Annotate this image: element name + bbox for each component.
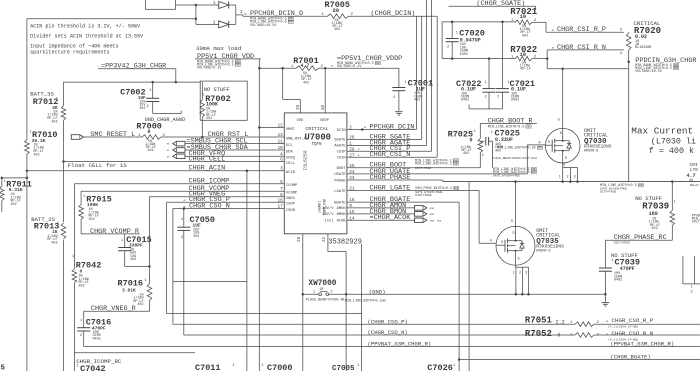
svg-text:35382929: 35382929 (328, 239, 362, 247)
node junction dot upper (195, 4, 198, 7)
resistor R7042 (72, 269, 77, 283)
wire BGATE rail (459, 359, 700, 361)
wire BGATE vertical long (458, 202, 460, 371)
svg-text:GATE_W7030=TRUE: GATE_W7030=TRUE (493, 174, 520, 177)
svg-text:MIN_LINE_WIDTH=0.25 mm: MIN_LINE_WIDTH=0.25 mm (497, 147, 542, 151)
svg-text:DCIN: DCIN (337, 129, 346, 133)
svg-text:CHGR_CSO_N: CHGR_CSO_N (189, 203, 230, 211)
resistor R7051 (575, 322, 594, 327)
wire VDD vertical long drop (258, 59, 260, 371)
transistor Q7030 (545, 128, 580, 163)
wire R7052 out (594, 334, 700, 336)
Q7030 source stubs (562, 163, 564, 168)
wire CELL to IC (64, 161, 285, 163)
svg-text:3: 3 (691, 291, 693, 295)
wire C7020 rail bottom (442, 58, 515, 60)
svg-text:10: 10 (278, 146, 284, 151)
svg-text:VOLTA: VOLTA (692, 221, 700, 225)
svg-text:VCOMP: VCOMP (286, 192, 298, 196)
capacitor C7002 top lead (152, 82, 154, 98)
svg-text:3: 3 (280, 167, 283, 172)
svg-text:DELAY: DELAY (690, 184, 699, 187)
svg-text:5: 5 (1, 365, 6, 371)
svg-text:AGATE: AGATE (334, 145, 346, 149)
svg-text:VDDP: VDDP (320, 119, 330, 123)
port CHGR_BMON (415, 212, 427, 217)
svg-text:2: 2 (567, 176, 569, 180)
svg-text:R7051: R7051 (525, 316, 553, 326)
svg-text:C7000: C7000 (267, 363, 293, 371)
wire C7001 to ground (398, 91, 400, 111)
net CHGR_UGATE (347, 173, 527, 175)
svg-text:6: 6 (280, 158, 283, 163)
svg-text:R7016: R7016 (118, 279, 144, 289)
box CHGR_ICOMP_RC (74, 352, 195, 354)
svg-text:CHGR_CSI_N: CHGR_CSI_N (370, 151, 411, 159)
net CHGR_CSI_N (347, 156, 437, 158)
wire R7016 to VNEG_R node (149, 301, 151, 312)
capacitor C7020 (446, 38, 459, 40)
wire to diode D2 anode (196, 23, 219, 25)
svg-text:CSIP: CSIP (337, 151, 347, 155)
wire R7000 to IC SMB_RST_N (161, 136, 284, 138)
wire C7022 bottom lead (488, 92, 490, 109)
net CHGR_LGATE (347, 190, 479, 192)
svg-text:0402: 0402 (511, 99, 519, 103)
net CHGR_BMON (347, 213, 415, 215)
svg-text:2: 2 (485, 96, 487, 100)
svg-text:S: S (565, 157, 567, 161)
svg-text:RP-LF: RP-LF (521, 68, 531, 72)
capacitor C7039 top lead (604, 240, 606, 268)
svg-text:402: 402 (148, 149, 154, 153)
svg-text:SGATE: SGATE (334, 139, 346, 143)
wire VDD pin 19 (283, 98, 301, 100)
svg-text:ICOMP: ICOMP (286, 184, 298, 188)
net CHGR_PHASE (347, 179, 443, 181)
resistor R7011 (1, 178, 3, 186)
svg-text:C7026: C7026 (427, 363, 453, 371)
svg-text:VMST: VMST (286, 128, 296, 132)
wire CSO_P elbow left (166, 202, 168, 313)
svg-text:S: S (518, 258, 520, 262)
svg-text:Divider sets ACIN threshold at: Divider sets ACIN threshold at 13.55V (30, 33, 144, 39)
wire CSI_P vertical to top (431, 0, 433, 151)
wire to diode D1 anode (196, 4, 219, 6)
wire VDDP pin 20 (324, 68, 326, 113)
wire vertical DCIN drop to IC (416, 16, 418, 129)
svg-text:402: 402 (139, 107, 145, 111)
wire rail y313 (167, 312, 362, 314)
resistor R7025 (478, 139, 483, 153)
svg-text:0: 0 (470, 137, 473, 143)
svg-text:TQFN: TQFN (312, 143, 323, 147)
svg-text:1: 1 (72, 255, 74, 259)
wire PPDCIN to Q7030 drain (547, 68, 629, 70)
svg-text:Max Current: Max Current (631, 125, 693, 136)
svg-text:402: 402 (51, 120, 57, 124)
capacitor C7015 top lead (124, 234, 126, 248)
svg-text:3: 3 (574, 176, 576, 180)
svg-text:=PP3V42_G3H_CHGR: =PP3V42_G3H_CHGR (101, 62, 166, 70)
svg-text:VDD: VDD (297, 119, 305, 123)
svg-text:(L7030 li: (L7030 li (651, 136, 696, 146)
svg-text:1: 1 (689, 179, 691, 183)
capacitor C7016 top lead (83, 311, 85, 327)
svg-text:CHGR_VNEG_R: CHGR_VNEG_R (91, 305, 136, 313)
wire stub horizontal y281 (173, 281, 247, 283)
svg-text:BOOT: BOOT (337, 167, 347, 171)
svg-text:1: 1 (121, 239, 123, 243)
svg-text:8: 8 (280, 193, 283, 198)
svg-text:D: D (560, 132, 562, 136)
wire divider chain below R7010 (26, 154, 28, 371)
svg-text:402: 402 (303, 81, 309, 85)
svg-text:18: 18 (278, 198, 284, 203)
svg-text:CELL: CELL (286, 162, 296, 166)
resistor R7016 (147, 284, 152, 301)
resistor R7010 (25, 140, 30, 155)
wire SGATE vertical to top (421, 16, 423, 139)
svg-text:1: 1 (405, 81, 407, 85)
svg-text:22: 22 (323, 237, 327, 243)
svg-text:402: 402 (495, 149, 501, 153)
resistor R7022 (515, 56, 532, 61)
svg-text:4.7: 4.7 (301, 63, 310, 69)
wire R7015 to VCOMP_R node (80, 219, 82, 234)
svg-text:C7011: C7011 (195, 363, 221, 371)
wire vertical ACIN filter drop (246, 171, 248, 371)
svg-text:CHGR_CSO_R_N: CHGR_CSO_R_N (612, 330, 654, 337)
wire divider chain x63 vertical (63, 82, 65, 106)
svg-text:2.2: 2.2 (556, 319, 565, 325)
svg-text:0402: 0402 (461, 99, 469, 103)
svg-text:(CHGR_CSO_P): (CHGR_CSO_P) (368, 318, 408, 325)
wire R7020 bottom to PPDCIN node (628, 50, 630, 182)
capacitor C7020 top lead (451, 22, 453, 39)
wire vertical joining diode anodes (195, 5, 197, 24)
net CHGR_PHASE_RC (605, 239, 672, 241)
svg-text:2: 2 (181, 236, 183, 240)
svg-text:10: 10 (520, 13, 527, 20)
svg-text:402: 402 (137, 303, 143, 307)
svg-text:2: 2 (447, 46, 449, 50)
capacitor C7022 (483, 88, 496, 90)
svg-text:13: 13 (278, 133, 284, 138)
diode D7005A (219, 2, 229, 9)
svg-text:402: 402 (463, 152, 469, 156)
svg-text:ACIN pin threshold is 3.2V, +/: ACIN pin threshold is 3.2V, +/- 50mV (30, 23, 141, 29)
wire C7015 bottom (124, 251, 126, 267)
wire SCL to IC (185, 143, 284, 145)
svg-text:17: 17 (278, 205, 284, 210)
phase bus (443, 181, 700, 183)
svg-text:«« «»: «« «» (430, 219, 443, 224)
svg-text:1: 1 (674, 201, 676, 205)
capacitor C7050 top lead (183, 209, 185, 228)
svg-text:402: 402 (334, 28, 340, 32)
svg-text:20: 20 (333, 7, 340, 14)
wire CSOP to IC (167, 201, 285, 203)
svg-text:1: 1 (559, 176, 561, 180)
svg-text:1: 1 (149, 89, 151, 93)
svg-text:1: 1 (56, 98, 58, 102)
wire joining diode cathodes (229, 4, 236, 6)
svg-text:RL1632WS: RL1632WS (635, 46, 651, 50)
svg-text:BMON: BMON (337, 213, 346, 217)
wire R7051 out (594, 323, 700, 325)
svg-text:CSON: CSON (286, 209, 295, 213)
resistor R7000 (142, 135, 161, 140)
ground symbol C7001 (395, 111, 403, 113)
svg-text:VOLTAGE=5.1V: VOLTAGE=5.1V (337, 65, 362, 69)
svg-text:.: . (97, 63, 100, 69)
svg-text:180: 180 (649, 211, 658, 217)
svg-text:0402: 0402 (614, 279, 622, 283)
svg-text:CHGR_ACIN: CHGR_ACIN (189, 165, 226, 173)
svg-text:MIN_LINE_WIDTH=0.3 mm: MIN_LINE_WIDTH=0.3 mm (415, 162, 458, 166)
capacitor C7021 (496, 88, 509, 90)
op-amp U7000 charger IC ISL6259 body (284, 113, 347, 234)
wire 3V42 elbow down (175, 69, 177, 82)
svg-text:0: 0 (148, 129, 151, 135)
wire R7022 to CSI_R_N (532, 58, 547, 60)
svg-text:BGATE: BGATE (334, 201, 346, 205)
wire C7020 bottom lead (451, 42, 453, 59)
svg-text:VNEG: VNEG (286, 197, 296, 201)
svg-text:1: 1 (513, 272, 515, 276)
svg-text:LGATE: LGATE (334, 190, 346, 194)
wire C7025 to BOOT row (492, 141, 494, 168)
svg-text:PLACE_NEAR=U7000;DIST<2mm: PLACE_NEAR=U7000;DIST<2mm (492, 156, 537, 160)
wire VCOMP chain vertical (80, 191, 82, 204)
svg-text:D: D (513, 232, 515, 236)
wire VNEG to IC (150, 196, 285, 198)
wire BATT_3S horizontal to diode input (27, 18, 196, 20)
svg-text:1: 1 (456, 32, 458, 36)
svg-text:CRITICAL: CRITICAL (306, 126, 329, 132)
net CHGR_BOOT (347, 167, 480, 169)
svg-text:MIN_LINE_WIDTH=0.1mm: MIN_LINE_WIDTH=0.1mm (345, 300, 386, 304)
wire R7025 bottom to BOOT row (479, 153, 481, 168)
svg-text:2: 2 (393, 96, 395, 100)
wire C7020 rail left (441, 22, 443, 59)
svg-text:(PPVBAT_G3M_CHGR_R): (PPVBAT_G3M_CHGR_R) (368, 341, 432, 348)
wire vertical x362 (361, 244, 363, 371)
svg-text:UGATE: UGATE (334, 173, 346, 177)
svg-text:NO STUFF: NO STUFF (204, 87, 230, 93)
svg-text:DIST=TRUE: DIST=TRUE (415, 194, 431, 197)
wire VFRQ to IC (185, 155, 284, 157)
svg-text:1: 1 (691, 286, 693, 290)
wire 3V42 label (98, 68, 176, 70)
wire vertical PGND drop (345, 252, 347, 371)
connector box (cropped) top edge (146, 0, 176, 9)
wire ICOMP to IC (74, 183, 284, 185)
capacitor C7021 top lead (502, 22, 504, 89)
svg-text:««: «« (430, 207, 435, 212)
node junction dot lower (195, 18, 198, 21)
svg-text:PPCHGR_DCIN: PPCHGR_DCIN (370, 123, 415, 131)
svg-text:(4.1)(16V0-LP-BQ): (4.1)(16V0-LP-BQ) (608, 325, 639, 329)
resistor R7012 (61, 106, 66, 121)
wire R7001 to C7001 (319, 67, 399, 69)
svg-text:2: 2 (80, 334, 82, 338)
wire BOOT_R to R7025 (479, 124, 481, 139)
resistor R7052 (575, 333, 594, 338)
svg-text:1: 1 (77, 365, 79, 369)
svg-text:1: 1 (57, 222, 59, 226)
wire port to R7000 (84, 136, 143, 138)
wire CHGR_DCIN to bundle (417, 15, 438, 17)
svg-text:3: 3 (525, 272, 527, 276)
wire Q7035 drain vertical (515, 182, 517, 227)
svg-text:sparkitecture requirements: sparkitecture requirements (30, 49, 109, 55)
svg-text:=CHGR_ACOK: =CHGR_ACOK (370, 214, 412, 222)
svg-text:1: 1 (145, 279, 147, 283)
svg-text:1: 1 (233, 364, 235, 368)
wire LGATE elbow to Q7035 gate (478, 191, 480, 244)
svg-text:36V/V: 36V/V (322, 212, 334, 217)
svg-text:(CHGR_CSO_N): (CHGR_CSO_N) (368, 329, 408, 336)
wire caps bottom bus (469, 108, 503, 110)
svg-text:402: 402 (414, 99, 420, 103)
svg-text:1: 1 (612, 259, 614, 263)
svg-text:402: 402 (522, 34, 528, 38)
svg-text:VOLTAGE=18.5V: VOLTAGE=18.5V (635, 70, 662, 74)
wire 3V42 rail (64, 81, 201, 83)
wire C7039 bottom to GND (604, 271, 606, 294)
svg-text:1: 1 (485, 81, 487, 85)
svg-text:402: 402 (11, 203, 17, 207)
svg-text:402: 402 (206, 117, 212, 121)
wire C7050 bottom to CSO_N rail (183, 230, 185, 335)
capacitor C7025 (480, 140, 484, 142)
wire R7002 bottom to RST (201, 117, 203, 137)
junction dot CELL tap (62, 160, 65, 163)
wire CSO_P rail (172, 209, 174, 325)
svg-text:1: 1 (181, 218, 183, 222)
svg-text:CSOP: CSOP (286, 203, 296, 207)
svg-text:470PF: 470PF (620, 266, 635, 272)
wire C7002 to AGND (152, 102, 154, 114)
svg-text:402: 402 (79, 284, 85, 288)
wire ICOMP chain vertical (73, 184, 75, 269)
wire R7042 to ICOMP_RC box (73, 283, 75, 353)
port SMC_RESET_L (71, 135, 83, 140)
svg-text:20V/V: 20V/V (322, 206, 334, 211)
svg-text:NO STUFF: NO STUFF (611, 252, 638, 259)
wire diode output (236, 14, 243, 16)
svg-text:3.01K: 3.01K (122, 288, 136, 294)
svg-text:DIST=TRUE: DIST=TRUE (600, 190, 616, 193)
svg-text:««: «« (430, 213, 435, 218)
svg-text:402: 402 (51, 242, 57, 246)
diode D7005B (219, 21, 229, 28)
resistor R7015 (79, 205, 84, 220)
svg-text:7: 7 (280, 187, 283, 192)
svg-text:CHGR_CELL: CHGR_CELL (189, 155, 226, 163)
svg-text:DIST=TRUE: DIST=TRUE (614, 242, 630, 245)
svg-text:C7005: C7005 (332, 365, 355, 371)
wire PP5V1 horizontal (259, 67, 296, 69)
wire R7005 to CHGR_DCIN (349, 15, 417, 17)
wire ACIN to IC (27, 170, 284, 172)
capacitor C7022 top lead (488, 59, 490, 89)
svg-text:«: « (244, 12, 247, 17)
svg-text:PLACE_NEAR=U7000 RE: PLACE_NEAR=U7000 RE (306, 299, 345, 303)
NO STUFF box R7002 (200, 81, 247, 120)
svg-text:(CHGR_BGATE): (CHGR_BGATE) (610, 353, 650, 360)
svg-text:30mA max load: 30mA max load (196, 45, 241, 52)
svg-text:C7002: C7002 (120, 87, 146, 97)
wire divider chain BATT_3S vertical (26, 19, 28, 140)
wire IC pin22 elbow (327, 234, 329, 252)
resistor R7002 (200, 100, 205, 118)
svg-text:CHGR_CSO_R_P: CHGR_CSO_R_P (612, 317, 654, 324)
capacitor C7001 top lead (398, 68, 400, 87)
wire UGATE elbow to Q7030 gate (526, 145, 528, 174)
svg-text:(GND): (GND) (369, 288, 386, 295)
svg-text:402: 402 (89, 218, 95, 222)
net CHGR_BGATE (347, 201, 459, 203)
wire VNEG chain vertical (149, 197, 151, 284)
capacitor C7015 (118, 247, 131, 249)
svg-text:2: 2 (497, 96, 499, 100)
wire SDA to IC (185, 149, 284, 151)
wire Q7030 drain vertical (562, 69, 564, 129)
resistor R7001 (296, 66, 319, 71)
svg-text:SMC_RESET_L: SMC_RESET_L (90, 131, 135, 139)
right edge partial battery fet wires (682, 256, 684, 284)
svg-text:29: 29 (298, 237, 302, 243)
svg-text:1: 1 (491, 131, 493, 135)
ground symbol main (604, 294, 606, 302)
svg-text:G: G (501, 241, 503, 245)
svg-text:VOLTAGE=18.5V: VOLTAGE=18.5V (250, 24, 277, 28)
svg-text:G: G (548, 141, 550, 145)
svg-text:2: 2 (147, 105, 149, 109)
resistor R7005 (328, 14, 349, 19)
capacitor C7002 (146, 97, 159, 99)
wire PPVBAT rail (84, 346, 700, 348)
svg-text:2: 2 (519, 272, 521, 276)
wire VDD elbow (282, 68, 284, 99)
wire from connector to diode OR node (176, 4, 196, 6)
wire R7021 to CSI_R_P (532, 21, 546, 23)
svg-text:0402: 0402 (93, 338, 101, 342)
net CHGR_AGATE (347, 144, 427, 146)
svg-text:SCL: SCL (286, 144, 294, 148)
svg-text:f = 400 k: f = 400 k (649, 146, 694, 156)
wire CSO_N rail (184, 334, 575, 336)
svg-text:R7052: R7052 (525, 329, 552, 339)
svg-text:1M: 1M (320, 287, 324, 291)
wire C7021 bottom lead (502, 92, 504, 109)
svg-text:11: 11 (278, 140, 284, 145)
svg-text:CSIN: CSIN (337, 157, 346, 161)
svg-text:CHGR_CSI_R_N: CHGR_CSI_R_N (557, 44, 606, 52)
wire ACIN lower divider (2, 177, 27, 179)
net PPCHGR_DCIN (347, 129, 417, 131)
capacitor C7050 (177, 226, 190, 228)
transistor Q7035 (496, 226, 535, 265)
net CHGR_SGATE (347, 138, 422, 140)
junction dots on 3V42 rail (151, 81, 154, 84)
svg-text:AMON: AMON (337, 207, 346, 211)
svg-text:L70: L70 (690, 167, 699, 173)
capacitor C7039 (599, 267, 612, 269)
